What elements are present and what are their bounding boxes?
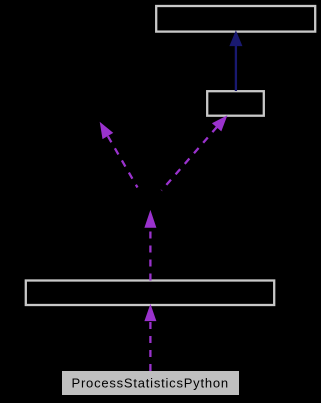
node: top base class box (empty) <box>156 6 315 32</box>
usage arrow (purple dashed) hidden node -> up-left <box>108 136 138 187</box>
usage arrow (purple dashed) wide box -> hidden node <box>149 227 151 281</box>
node: wide middle class box (empty) <box>26 281 274 306</box>
svg-text:ProcessStatisticsPython: ProcessStatisticsPython <box>72 375 229 390</box>
node: second base class box (empty) <box>207 91 264 116</box>
node: ProcessStatisticsPython (current class, grey fill) <box>62 371 239 395</box>
usage arrow (purple dashed) hidden node -> box2 bottom-left <box>162 127 218 191</box>
usage arrow (purple dashed) bottom box -> wide box <box>149 321 151 372</box>
inheritance arrow (solid midnightblue) box2 -> top box <box>235 45 237 92</box>
